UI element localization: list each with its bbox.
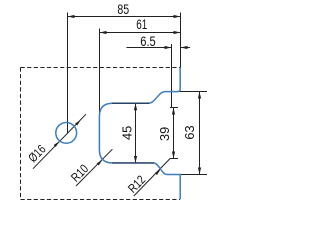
top reference bar dim 39 [170, 107, 178, 109]
svg-text:R12: R12 [125, 173, 148, 196]
part profile outline [99, 68, 180, 200]
arrow outside-left dim 6.5 pointing right [165, 46, 172, 49]
leader line diameter 16 [33, 114, 86, 169]
svg-text:R10: R10 [68, 162, 91, 185]
leader line R12 [134, 159, 170, 196]
bottom edge dark overlay [112, 162, 154, 164]
dimension line 61 [100, 32, 181, 34]
arrow outside-right dim 6.5 pointing left [181, 46, 188, 49]
svg-text:45: 45 [120, 126, 134, 140]
top edge dark overlay [112, 102, 149, 104]
bottom reference bar dim 39 [170, 158, 178, 160]
dimension line 63 [199, 92, 201, 175]
arrow up dim 45 [134, 103, 137, 110]
svg-text:85: 85 [117, 2, 129, 17]
arrow down dim 45 [134, 156, 137, 163]
svg-text:63: 63 [183, 125, 197, 139]
extension line left of dim 61 [99, 29, 101, 151]
dimension line 85 [68, 16, 181, 18]
top extension line dim 63 [175, 91, 208, 93]
leader arrow R10 [97, 160, 103, 166]
leader line R10 [76, 149, 112, 186]
leader arrow R12 [155, 169, 161, 175]
arrow up dim 39 [172, 108, 175, 115]
extension line left of dim 6.5 [171, 44, 173, 108]
tail right of dim 6.5 [181, 47, 191, 49]
panel outline dashed rectangle [21, 68, 181, 200]
arrow up dim 63 [198, 92, 201, 99]
dimension line 45 [135, 103, 137, 163]
arrow left dim 85 [68, 15, 75, 18]
arrow down dim 39 [172, 152, 175, 159]
leader arrow lower on circle [54, 141, 60, 147]
dimension line 6.5 with text tail [127, 47, 172, 49]
svg-text:61: 61 [136, 17, 147, 32]
extension line left of dim 85 [67, 13, 69, 134]
arrow right dim 85 [174, 15, 181, 18]
svg-text:6.5: 6.5 [140, 34, 156, 49]
extension line right shared 85/61/6.5 [180, 13, 182, 68]
svg-text:Ø16: Ø16 [26, 142, 49, 165]
dimension line 39 [173, 108, 175, 159]
arrow left dim 61 [100, 31, 107, 34]
arrow down dim 63 [198, 168, 201, 175]
leader arrow upper on circle [75, 120, 81, 126]
arrow right dim 61 [174, 31, 181, 34]
svg-text:39: 39 [158, 127, 172, 141]
bottom extension line dim 63 [181, 174, 207, 176]
hole circle diameter 16 [56, 122, 77, 143]
